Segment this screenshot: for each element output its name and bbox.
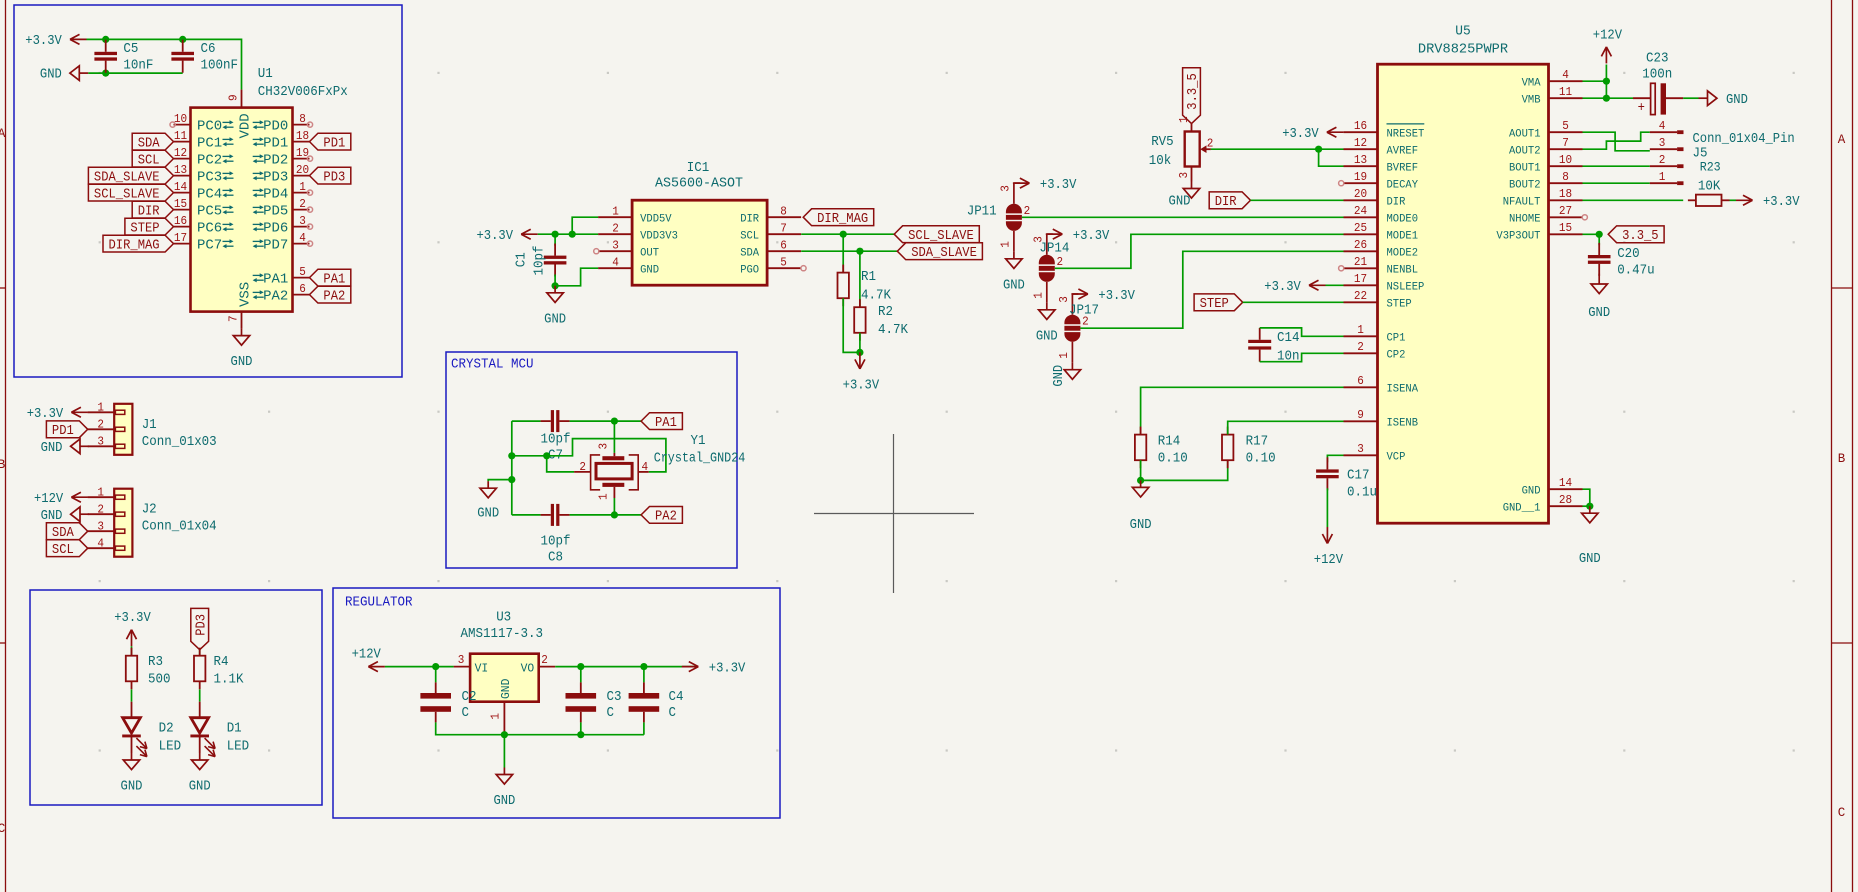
svg-text:2: 2 — [1024, 204, 1031, 218]
svg-text:AS5600-ASOT: AS5600-ASOT — [655, 175, 743, 191]
wire — [1141, 387, 1344, 434]
svg-text:3: 3 — [612, 239, 619, 253]
svg-text:PGO: PGO — [740, 264, 759, 276]
svg-text:GND: GND — [1169, 194, 1191, 210]
svg-text:10: 10 — [1559, 153, 1572, 167]
wire — [88, 72, 182, 74]
svg-text:A: A — [0, 127, 6, 141]
svg-text:3.3_5: 3.3_5 — [1185, 73, 1201, 110]
svg-text:R23: R23 — [1700, 160, 1721, 175]
svg-text:+3.3V: +3.3V — [114, 610, 151, 626]
capacitor C4 — [643, 667, 645, 683]
power +12V (regulator in) — [368, 666, 385, 668]
svg-text:3: 3 — [597, 443, 611, 450]
svg-text:1: 1 — [998, 241, 1012, 248]
capacitor C7 10pf — [551, 410, 554, 432]
junction — [856, 248, 863, 255]
ground GND (C23) — [1699, 97, 1708, 99]
svg-text:BOUT2: BOUT2 — [1509, 179, 1541, 191]
capacitor C2 — [435, 667, 437, 683]
global label STEP — [125, 218, 174, 235]
svg-text:4: 4 — [1659, 119, 1666, 133]
svg-text:VDD: VDD — [238, 113, 254, 138]
power +3.3V (J1 pin 1) — [71, 411, 88, 413]
global label PD3 (R4) — [191, 608, 209, 649]
junction — [577, 663, 584, 670]
svg-text:SDA_SLAVE: SDA_SLAVE — [94, 169, 160, 185]
junction — [508, 452, 515, 459]
svg-text:PC7: PC7 — [197, 238, 222, 254]
ground GND (C1) — [554, 286, 556, 293]
power +3.3V (LED block) — [131, 630, 133, 647]
svg-text:BVREF: BVREF — [1387, 162, 1419, 174]
svg-text:+12V: +12V — [1593, 27, 1623, 43]
svg-text:JP11: JP11 — [967, 204, 997, 220]
svg-text:C: C — [0, 822, 5, 836]
svg-text:GND: GND — [41, 508, 63, 524]
svg-text:VSS: VSS — [238, 282, 254, 307]
junction — [102, 36, 109, 43]
svg-text:PD1: PD1 — [263, 136, 288, 152]
global label PD1 — [310, 133, 351, 150]
svg-text:MODE0: MODE0 — [1387, 214, 1419, 226]
svg-text:3.3_5: 3.3_5 — [1622, 228, 1659, 244]
led D1 — [199, 702, 201, 718]
svg-text:PA2: PA2 — [263, 289, 288, 305]
ground GND (crystal) — [487, 481, 489, 488]
no-connect NHOME — [1582, 215, 1587, 220]
svg-text:+12V: +12V — [34, 491, 64, 507]
junction — [432, 663, 439, 670]
junction — [102, 70, 109, 77]
potentiometer RV5 10k — [1149, 116, 1213, 181]
junction — [577, 731, 584, 738]
svg-text:B: B — [1838, 452, 1846, 466]
junction — [1137, 477, 1144, 484]
svg-text:+12V: +12V — [352, 647, 382, 663]
junction — [1596, 231, 1603, 238]
connector J2 Conn_01x04 — [114, 489, 132, 557]
resistor R17 0.10 — [1222, 435, 1233, 461]
svg-text:1: 1 — [597, 493, 611, 500]
led D2 — [131, 702, 133, 718]
svg-text:Conn_01x04_Pin: Conn_01x04_Pin — [1693, 131, 1795, 147]
wire — [488, 480, 512, 482]
svg-text:+3.3V: +3.3V — [1282, 126, 1319, 142]
power +3.3V (JP11) — [1014, 182, 1020, 184]
svg-text:1: 1 — [1031, 292, 1045, 299]
wire — [512, 514, 541, 516]
svg-text:26: 26 — [1354, 238, 1367, 252]
wire — [547, 456, 574, 472]
svg-text:C4: C4 — [669, 689, 684, 705]
svg-text:2: 2 — [1659, 153, 1666, 167]
junction — [1603, 95, 1610, 102]
connector J5 Conn_01x04_Pin — [1650, 119, 1795, 185]
crystal Y1 Crystal_GND24 — [574, 433, 745, 500]
svg-text:REGULATOR: REGULATOR — [345, 595, 413, 611]
svg-text:+3.3V: +3.3V — [1073, 228, 1110, 244]
svg-text:8: 8 — [299, 112, 306, 126]
graphic box MCU section — [14, 5, 402, 377]
junction — [569, 231, 576, 238]
wire BOUT2 to J5 pin 1 — [1583, 182, 1650, 184]
power +3.3V (IC1) — [521, 233, 538, 235]
svg-text:DIR: DIR — [1387, 197, 1406, 209]
resistor R2 4.7K — [854, 307, 865, 333]
svg-text:CP1: CP1 — [1387, 333, 1406, 345]
global label SCL_SLAVE — [894, 226, 979, 243]
svg-text:2: 2 — [541, 653, 548, 667]
svg-text:NRESET: NRESET — [1387, 128, 1425, 140]
svg-text:2: 2 — [1357, 340, 1364, 354]
svg-text:20: 20 — [296, 163, 309, 177]
junction — [552, 231, 559, 238]
svg-text:PC4: PC4 — [197, 187, 222, 203]
svg-text:6: 6 — [299, 282, 306, 296]
ground GND (JP17) — [1071, 363, 1073, 370]
svg-text:+3.3V: +3.3V — [477, 228, 514, 244]
wire — [538, 233, 598, 235]
svg-text:16: 16 — [1354, 119, 1367, 133]
svg-text:SCL: SCL — [138, 152, 160, 168]
svg-text:100nF: 100nF — [201, 57, 239, 73]
wire — [512, 439, 666, 472]
wire — [572, 217, 598, 234]
svg-text:1: 1 — [612, 205, 619, 219]
svg-text:10pf: 10pf — [541, 431, 571, 447]
svg-text:A: A — [1838, 133, 1846, 147]
svg-text:PA1: PA1 — [263, 272, 288, 288]
wire — [1730, 199, 1737, 201]
wire — [1260, 328, 1344, 336]
capacitor C1 10pf — [554, 234, 556, 246]
svg-text:PA2: PA2 — [655, 509, 677, 525]
wire — [131, 689, 133, 701]
svg-text:4: 4 — [97, 536, 104, 550]
svg-text:JP14: JP14 — [1039, 241, 1069, 257]
wire — [199, 689, 201, 701]
svg-text:14: 14 — [174, 180, 187, 194]
svg-text:PD1: PD1 — [52, 423, 74, 439]
wire — [436, 722, 644, 734]
ground GND (JP14) — [1046, 303, 1048, 310]
svg-text:13: 13 — [174, 163, 187, 177]
svg-text:+: + — [1638, 100, 1645, 116]
wire — [1055, 234, 1344, 268]
global label SDA (J2 pin 3) — [46, 523, 87, 540]
svg-text:CP2: CP2 — [1387, 350, 1406, 362]
capacitor C23 100n (polarized) — [1633, 50, 1683, 116]
ground GND (D2) — [131, 753, 133, 760]
no-connect pins PD0 PD2 PD4-PD7 — [307, 122, 312, 127]
svg-text:3: 3 — [97, 519, 104, 533]
svg-text:1.1K: 1.1K — [214, 671, 245, 687]
global label SCL (J2 pin 4) — [46, 540, 87, 557]
wire — [801, 250, 897, 252]
wire — [1583, 233, 1600, 235]
svg-text:PC3: PC3 — [197, 170, 222, 186]
svg-text:NHOME: NHOME — [1509, 214, 1541, 226]
svg-text:U5: U5 — [1455, 24, 1470, 40]
svg-text:DRV8825PWPR: DRV8825PWPR — [1418, 41, 1509, 57]
power +12V (J2 pin 1) — [71, 496, 88, 498]
svg-text:2: 2 — [1057, 255, 1064, 269]
svg-text:1: 1 — [1659, 170, 1666, 184]
svg-text:GND: GND — [1579, 551, 1601, 567]
svg-text:18: 18 — [1559, 187, 1572, 201]
global label PD3 — [310, 167, 351, 184]
svg-text:R14: R14 — [1158, 434, 1181, 450]
svg-text:PD0: PD0 — [263, 119, 288, 135]
svg-text:8: 8 — [1562, 170, 1569, 184]
svg-text:GND: GND — [189, 779, 211, 795]
connector J1 Conn_01x03 — [114, 404, 132, 455]
capacitor C8 10pf — [551, 504, 554, 526]
wire — [613, 498, 615, 515]
wire — [511, 421, 513, 515]
svg-text:NSLEEP: NSLEEP — [1387, 282, 1425, 294]
svg-text:MODE1: MODE1 — [1387, 231, 1419, 243]
svg-text:8: 8 — [780, 205, 787, 219]
svg-text:VDD5V: VDD5V — [640, 213, 672, 225]
svg-text:V3P3OUT: V3P3OUT — [1496, 231, 1540, 243]
svg-text:1: 1 — [489, 713, 503, 720]
junction — [611, 511, 618, 518]
svg-text:27: 27 — [1559, 204, 1572, 218]
global label SCL — [132, 150, 173, 167]
wire — [554, 275, 556, 286]
svg-text:GND: GND — [1522, 485, 1541, 497]
svg-text:PC2: PC2 — [197, 153, 222, 169]
svg-text:GND: GND — [493, 793, 515, 809]
svg-text:25: 25 — [1354, 221, 1367, 235]
wire — [1583, 97, 1634, 99]
wire — [1683, 97, 1698, 99]
svg-text:5: 5 — [780, 256, 787, 270]
svg-text:VMB: VMB — [1522, 94, 1541, 106]
svg-text:13: 13 — [1354, 153, 1367, 167]
svg-text:D1: D1 — [227, 721, 242, 737]
svg-text:SDA: SDA — [740, 247, 759, 259]
svg-text:GND: GND — [1003, 277, 1025, 293]
svg-text:GND: GND — [1130, 517, 1152, 533]
svg-text:AVREF: AVREF — [1387, 145, 1419, 157]
svg-text:4: 4 — [612, 256, 619, 270]
svg-text:18: 18 — [296, 129, 309, 143]
svg-text:5: 5 — [299, 265, 306, 279]
global label PA1 — [310, 269, 351, 286]
svg-text:+3.3V: +3.3V — [1098, 288, 1135, 304]
svg-text:20: 20 — [1354, 187, 1367, 201]
svg-text:4.7K: 4.7K — [861, 287, 892, 303]
svg-text:5: 5 — [1562, 119, 1569, 133]
svg-text:CRYSTAL MCU: CRYSTAL MCU — [451, 357, 534, 373]
svg-text:PD6: PD6 — [263, 221, 288, 237]
junction — [611, 418, 618, 425]
svg-text:DIR: DIR — [740, 213, 759, 225]
svg-text:22: 22 — [1354, 289, 1367, 303]
svg-text:R3: R3 — [148, 654, 163, 670]
svg-text:SDA: SDA — [52, 525, 74, 541]
no-connect pin 5 PGO — [801, 266, 806, 271]
svg-text:1: 1 — [97, 485, 104, 499]
junction — [856, 349, 863, 356]
svg-text:GND: GND — [499, 679, 513, 699]
global label STEP (U5) — [1194, 294, 1243, 311]
svg-text:3: 3 — [1177, 172, 1191, 179]
svg-text:15: 15 — [1559, 221, 1572, 235]
wire — [1319, 149, 1344, 166]
svg-text:AOUT1: AOUT1 — [1509, 128, 1541, 140]
svg-text:+3.3V: +3.3V — [1040, 177, 1077, 193]
svg-text:PA1: PA1 — [655, 415, 677, 431]
svg-text:GND: GND — [231, 354, 253, 370]
svg-text:PD3: PD3 — [263, 170, 288, 186]
svg-text:D2: D2 — [159, 721, 174, 737]
graphic box LED section — [30, 590, 322, 805]
svg-text:24: 24 — [1354, 204, 1367, 218]
ground GND (U1 VSS) — [241, 329, 243, 336]
resistor R23 10K — [1696, 195, 1722, 206]
svg-text:B: B — [0, 458, 6, 472]
svg-text:3: 3 — [998, 185, 1012, 192]
svg-text:0.10: 0.10 — [1246, 451, 1276, 467]
svg-text:9: 9 — [1357, 408, 1364, 422]
wire — [1583, 80, 1607, 82]
junction — [508, 476, 515, 483]
solder jumper JP14 — [1031, 234, 1069, 303]
svg-text:3: 3 — [97, 435, 104, 449]
svg-text:PD1: PD1 — [323, 135, 345, 151]
svg-text:+3.3V: +3.3V — [1763, 194, 1800, 210]
wire — [859, 333, 861, 353]
svg-text:C: C — [462, 705, 470, 721]
power +3.3V (regulator out) — [682, 666, 699, 668]
wire — [1022, 216, 1344, 218]
capacitor C20 0.47u — [1598, 234, 1600, 245]
capacitor C14 10n — [1259, 328, 1261, 340]
svg-text:2: 2 — [1082, 315, 1089, 329]
resistor R3 500 — [126, 656, 137, 682]
svg-text:C: C — [1838, 806, 1846, 820]
capacitor C17 0.1u — [1316, 469, 1339, 472]
ground GND (C20) — [1598, 274, 1600, 277]
svg-text:12: 12 — [174, 146, 187, 160]
svg-text:6: 6 — [780, 239, 787, 253]
wire — [199, 650, 201, 656]
wire — [385, 666, 454, 668]
junction — [179, 36, 186, 43]
svg-text:17: 17 — [174, 231, 187, 245]
ground GND (R14 R17) — [1140, 480, 1142, 487]
svg-text:PD3: PD3 — [193, 614, 209, 636]
svg-text:C14: C14 — [1277, 330, 1300, 346]
junction — [1603, 78, 1610, 85]
svg-text:ISENA: ISENA — [1387, 384, 1419, 396]
svg-text:C1: C1 — [514, 252, 530, 267]
svg-text:GND: GND — [544, 312, 566, 328]
svg-text:10pf: 10pf — [532, 246, 548, 276]
svg-text:DIR_MAG: DIR_MAG — [109, 237, 160, 253]
svg-text:STEP: STEP — [1387, 299, 1412, 311]
svg-text:500: 500 — [148, 671, 171, 687]
svg-text:SDA: SDA — [138, 135, 160, 151]
svg-text:C3: C3 — [607, 689, 622, 705]
no-connect DECAY — [1339, 181, 1344, 186]
resistor R4 1.1K — [194, 656, 205, 682]
svg-text:3: 3 — [1659, 136, 1666, 150]
svg-text:3: 3 — [1357, 442, 1364, 456]
svg-text:1: 1 — [1357, 323, 1364, 337]
no-connect pin 10 — [170, 122, 175, 127]
global label PA2 (crystal) — [641, 507, 682, 524]
ground GND (JP11) — [1013, 252, 1015, 259]
svg-text:4: 4 — [1562, 68, 1569, 82]
power +3.3V (NSLEEP) — [1309, 284, 1326, 286]
svg-text:STEP: STEP — [1200, 296, 1229, 312]
regulator U3 AMS1117-3.3 — [454, 610, 556, 735]
wire BOUT1 to J5 pin 2 — [1583, 165, 1650, 167]
svg-text:VCP: VCP — [1387, 452, 1406, 464]
wire — [1583, 505, 1590, 507]
power +3.3V (JP14) — [1047, 233, 1053, 235]
svg-text:U1: U1 — [258, 66, 273, 82]
svg-text:10: 10 — [174, 112, 187, 126]
svg-text:J1: J1 — [142, 417, 157, 433]
svg-text:9: 9 — [226, 94, 240, 101]
svg-text:14: 14 — [1559, 476, 1572, 490]
svg-text:GND: GND — [121, 779, 143, 795]
wire — [1326, 488, 1328, 527]
svg-text:4: 4 — [642, 460, 649, 474]
svg-text:11: 11 — [174, 129, 187, 143]
power +3.3V (NFAULT) — [1736, 199, 1753, 201]
svg-text:17: 17 — [1354, 272, 1367, 286]
svg-text:PA1: PA1 — [323, 271, 345, 287]
svg-text:DIR_MAG: DIR_MAG — [817, 211, 868, 227]
svg-text:0.10: 0.10 — [1158, 451, 1188, 467]
svg-text:12: 12 — [1354, 136, 1367, 150]
svg-text:ISENB: ISENB — [1387, 418, 1419, 430]
wire — [1080, 251, 1343, 328]
svg-text:VO: VO — [521, 662, 535, 676]
svg-text:R4: R4 — [214, 654, 229, 670]
svg-text:PC6: PC6 — [197, 221, 222, 237]
wire — [1141, 460, 1228, 480]
wire — [1140, 460, 1142, 480]
svg-text:C: C — [607, 705, 615, 721]
global label PA1 (crystal) — [641, 413, 682, 430]
svg-text:GND: GND — [1051, 365, 1067, 387]
global label 3.3_5 (V3P3OUT) — [1608, 226, 1664, 243]
svg-text:1: 1 — [299, 180, 306, 194]
svg-text:7: 7 — [226, 315, 240, 322]
junction — [1586, 503, 1593, 510]
svg-text:PA2: PA2 — [323, 288, 345, 304]
svg-text:19: 19 — [1354, 170, 1367, 184]
svg-text:0.47u: 0.47u — [1617, 263, 1655, 279]
wire — [1260, 353, 1344, 361]
svg-text:100n: 100n — [1642, 66, 1672, 82]
svg-text:Crystal_GND24: Crystal_GND24 — [654, 451, 746, 467]
svg-text:2: 2 — [97, 502, 104, 516]
svg-text:SCL: SCL — [740, 230, 759, 242]
wire — [613, 421, 615, 453]
svg-text:DIR: DIR — [1215, 194, 1237, 210]
global label DIR — [132, 201, 173, 218]
wire — [512, 420, 541, 422]
